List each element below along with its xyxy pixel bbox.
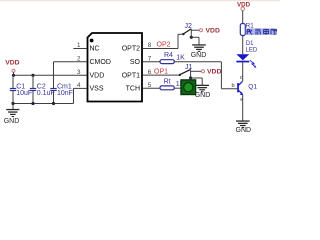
capacitor C2 (30, 75, 55, 103)
resistor Rt (160, 79, 185, 90)
pin number 2 (77, 56, 81, 63)
value label 限流电阻 (highlighted, drawn as vector glyphs) (246, 28, 277, 35)
pin number 7 (148, 56, 152, 63)
svg-text:c: c (240, 75, 243, 81)
svg-text:Rt: Rt (164, 79, 171, 86)
node VDD/C1 junction (12, 74, 15, 77)
ground GND (left) (4, 104, 20, 126)
node C2 top junction (31, 74, 34, 77)
svg-text:1: 1 (77, 42, 81, 49)
wire GND rail (bottom) (13, 103, 74, 105)
power VDD (at J2) (191, 28, 220, 35)
svg-text:b: b (232, 83, 235, 89)
svg-text:TCH: TCH (126, 86, 140, 93)
svg-text:VSS: VSS (90, 86, 104, 93)
wire R4 to Q1 base (174, 62, 237, 89)
resistor R4 (160, 52, 185, 64)
wire VSS (pin4 to GND rail) (74, 88, 87, 103)
net label OP2 (157, 41, 171, 48)
pin number 8 (148, 42, 152, 49)
node J1 right contact junction (189, 76, 192, 79)
svg-text:10uF: 10uF (16, 90, 32, 97)
svg-text:OPT1: OPT1 (122, 72, 140, 79)
ground GND (at J2) (191, 37, 207, 59)
switch J1 (179, 64, 193, 78)
svg-text:OP1: OP1 (154, 69, 168, 76)
svg-text:2: 2 (77, 56, 81, 63)
wire CMOD (pin2 to Cm1) (54, 61, 87, 63)
wire J1 node to touch pad (190, 78, 192, 82)
svg-text:R4: R4 (164, 52, 173, 59)
power VDD (left) (5, 59, 19, 75)
ground GND (at J1) (191, 78, 211, 99)
wire OPT1 (pin6 to J1) (143, 74, 180, 76)
node Cm1 bottom junction (52, 102, 55, 105)
resistor R1 (240, 23, 254, 36)
ground GND (bottom right) (236, 120, 252, 134)
svg-text:SO: SO (130, 59, 141, 66)
capacitor Cm1 (50, 62, 73, 104)
svg-text:VDD: VDD (90, 72, 105, 79)
pin number 5 (148, 82, 152, 89)
power VDD (top right) (237, 2, 251, 24)
svg-text:10nF: 10nF (57, 90, 73, 97)
touch pad S1 (181, 80, 196, 95)
svg-text:CMOD: CMOD (90, 59, 111, 66)
wire pin1 NC stub (73, 48, 86, 50)
svg-text:LED: LED (246, 48, 258, 54)
svg-text:4: 4 (77, 82, 81, 89)
svg-text:VDD: VDD (5, 59, 19, 66)
pin number 6 (148, 69, 152, 76)
svg-text:D1: D1 (246, 41, 254, 47)
svg-text:VDD: VDD (206, 28, 220, 35)
svg-text:OPT2: OPT2 (122, 46, 140, 53)
switch J2 (182, 23, 192, 38)
node C2 bottom junction (31, 102, 34, 105)
diode D1 LED (236, 41, 257, 68)
node C1 bottom junction (11, 102, 14, 105)
capacitor C1 (10, 75, 32, 103)
net label OP1 (154, 69, 168, 76)
svg-text:GND: GND (195, 92, 211, 99)
svg-text:3: 3 (77, 69, 81, 76)
svg-text:1K: 1K (176, 55, 185, 62)
wire OPT2 (pin8 to J2) (143, 34, 183, 48)
svg-text:GND: GND (191, 52, 207, 59)
wire LED to Q1 collector (242, 62, 244, 81)
IC U1 touch controller (88, 33, 143, 102)
wire VDD rail (top) (13, 74, 87, 76)
transistor Q1 (232, 75, 258, 103)
svg-text:Q1: Q1 (248, 84, 257, 91)
wire Q1 emitter to GND (242, 95, 244, 121)
wire TCH (pin5 to Rt) (143, 87, 160, 89)
svg-text:NC: NC (90, 46, 100, 53)
node J2 right contact junction (190, 36, 193, 39)
svg-text:GND: GND (236, 127, 252, 133)
pin number 4 (77, 82, 81, 89)
wire SO (pin7 to R4) (143, 61, 160, 63)
svg-text:OP2: OP2 (157, 41, 171, 48)
pin number 1 (77, 42, 81, 49)
svg-text:VDD: VDD (207, 69, 221, 76)
svg-text:GND: GND (4, 118, 20, 125)
pin number 3 (77, 69, 81, 76)
wire R1 to LED (242, 36, 244, 55)
wire Rt to touch pad (174, 87, 181, 89)
power VDD (at J1) (191, 69, 222, 76)
